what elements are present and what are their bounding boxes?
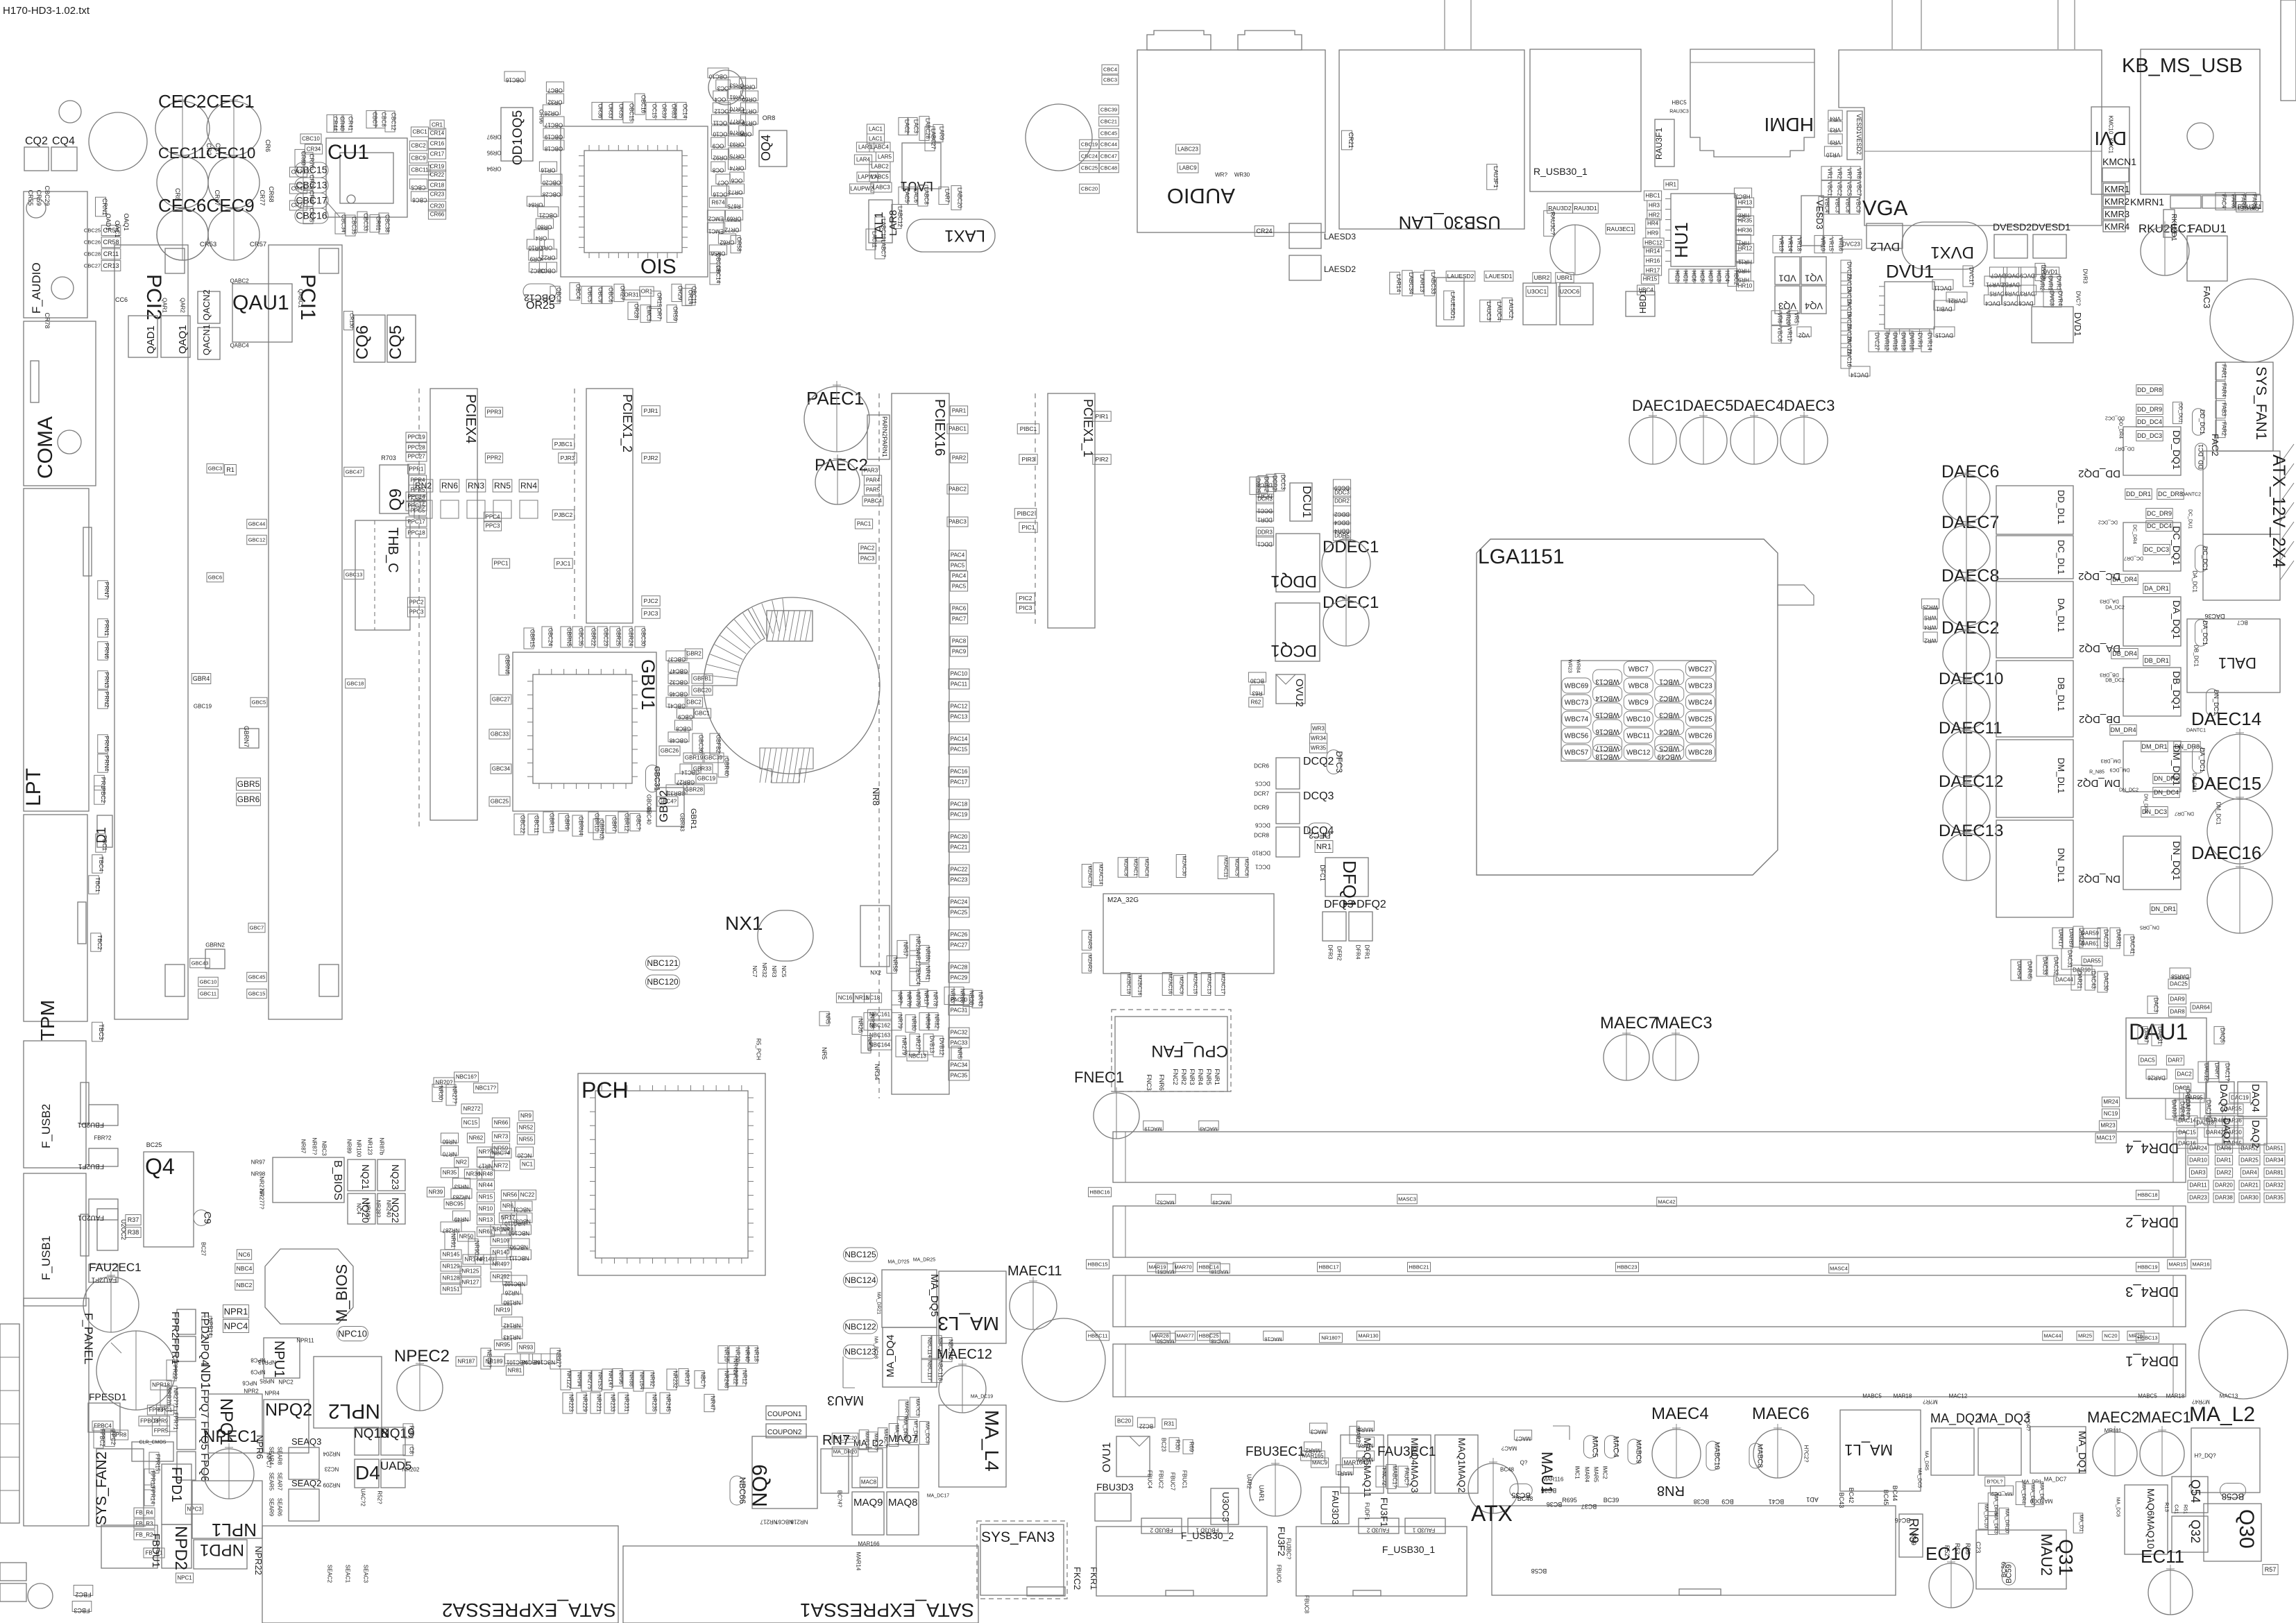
svg-text:NR?7: NR?7 xyxy=(479,1149,493,1155)
svg-text:NR44: NR44 xyxy=(479,1182,493,1189)
svg-text:LABC20: LABC20 xyxy=(957,187,963,208)
transistor NQ23 xyxy=(377,1159,405,1191)
svg-text:DAC31: DAC31 xyxy=(2067,950,2073,968)
svg-text:PAC4: PAC4 xyxy=(952,573,967,579)
connector SYS_FAN1 xyxy=(2216,362,2273,451)
svg-text:CBC25: CBC25 xyxy=(84,227,101,233)
svg-text:CBC10: CBC10 xyxy=(302,136,320,142)
resistor RN5 xyxy=(493,479,512,492)
svg-text:NR245: NR245 xyxy=(665,1395,672,1412)
svg-text:LAR14: LAR14 xyxy=(1395,274,1402,292)
svg-text:PAC5: PAC5 xyxy=(951,563,965,569)
svg-text:CBC48: CBC48 xyxy=(1100,164,1117,171)
svg-text:DC_DQ1: DC_DQ1 xyxy=(2171,526,2182,566)
connector F_USB2 xyxy=(24,1041,86,1168)
svg-text:DB_DR4: DB_DR4 xyxy=(2112,650,2137,657)
svg-text:GBC24: GBC24 xyxy=(547,628,554,647)
svg-text:DDC3: DDC3 xyxy=(1334,490,1350,496)
slot PCIEX16 xyxy=(878,393,880,1098)
svg-text:DAR20: DAR20 xyxy=(2215,1182,2233,1189)
svg-text:GBC2: GBC2 xyxy=(686,699,701,706)
regulator DAQ4 xyxy=(2238,1082,2267,1116)
svg-text:CR61: CR61 xyxy=(375,216,382,231)
svg-text:OR72: OR72 xyxy=(724,227,739,233)
resistor DFC3 xyxy=(1327,750,1341,774)
svg-text:DAQ3: DAQ3 xyxy=(2218,1084,2229,1112)
svg-text:LGA1151: LGA1151 xyxy=(1478,545,1565,568)
svg-text:OC9: OC9 xyxy=(712,143,724,149)
svg-text:WBC14: WBC14 xyxy=(1595,694,1619,702)
svg-text:NR10: NR10 xyxy=(479,1206,493,1212)
transistor OQ4 xyxy=(759,130,787,167)
svg-text:NR87: NR87 xyxy=(300,1139,307,1154)
LAU cluster designators xyxy=(867,124,884,134)
svg-text:R_USB30_1: R_USB30_1 xyxy=(1533,166,1588,177)
resistor RN7 xyxy=(821,1449,849,1493)
svg-text:OR97: OR97 xyxy=(486,134,501,140)
svg-text:NQ23: NQ23 xyxy=(390,1164,401,1190)
connector SATA_EXPRESSA1 xyxy=(623,1546,978,1623)
svg-text:NR27?: NR27? xyxy=(915,1036,921,1053)
svg-text:M2BC18: M2BC18 xyxy=(1125,974,1132,994)
svg-text:F_USB30_2: F_USB30_2 xyxy=(1181,1530,1234,1541)
svg-text:H?C2?: H?C2? xyxy=(1803,1445,1810,1463)
resistor PARN2PARN1 xyxy=(867,415,890,459)
svg-text:DAR51: DAR51 xyxy=(2265,1146,2284,1152)
svg-text:NR81: NR81 xyxy=(508,1368,522,1374)
svg-text:MAC5?: MAC5? xyxy=(873,1433,879,1450)
inductor DC_DL1 xyxy=(1996,536,2073,579)
svg-text:PAC11: PAC11 xyxy=(951,681,968,688)
svg-text:MAC49: MAC49 xyxy=(1212,1199,1230,1205)
svg-text:EMC4: EMC4 xyxy=(915,969,921,985)
svg-text:DAR26: DAR26 xyxy=(2148,1075,2166,1081)
svg-text:GBC6: GBC6 xyxy=(208,574,222,580)
svg-text:M?_DR?: M?_DR? xyxy=(912,1420,919,1441)
diode VESD3 xyxy=(1801,196,1823,246)
svg-text:MA_DC6: MA_DC6 xyxy=(2115,1497,2120,1518)
mounting hole right xyxy=(2199,1310,2288,1399)
svg-text:MA_DR?: MA_DR? xyxy=(2025,1411,2030,1431)
svg-text:PJBC2: PJBC2 xyxy=(554,511,573,518)
svg-text:NBC123: NBC123 xyxy=(844,1347,876,1357)
svg-text:MAR?6: MAR?6 xyxy=(903,1401,910,1418)
regulator DAQ2 xyxy=(2238,1119,2267,1145)
DAR grid right of DDR4_4 xyxy=(2188,1144,2209,1153)
svg-text:DCC1: DCC1 xyxy=(1257,508,1273,514)
svg-text:OR78: OR78 xyxy=(742,120,756,126)
svg-text:FBUC6: FBUC6 xyxy=(1276,1565,1282,1583)
svg-text:NPQ4: NPQ4 xyxy=(198,1336,210,1366)
svg-text:DAR6: DAR6 xyxy=(2216,1146,2231,1152)
svg-text:NR235: NR235 xyxy=(652,1395,658,1412)
svg-text:MA_D?25: MA_D?25 xyxy=(887,1259,909,1264)
svg-text:WR84: WR84 xyxy=(1575,659,1580,673)
svg-text:PPR1: PPR1 xyxy=(409,466,424,473)
svg-text:HU1: HU1 xyxy=(1671,222,1692,258)
connector CQ2 xyxy=(24,147,49,171)
svg-text:LAR7: LAR7 xyxy=(944,189,951,203)
svg-text:FAU3EC1: FAU3EC1 xyxy=(1377,1445,1436,1459)
svg-text:CBC5: CBC5 xyxy=(411,185,426,191)
svg-text:PAC34: PAC34 xyxy=(951,1062,968,1069)
svg-text:PIBC2: PIBC2 xyxy=(1017,510,1035,517)
svg-text:WBC12: WBC12 xyxy=(1626,749,1651,756)
svg-text:NR204: NR204 xyxy=(323,1451,340,1457)
connector SYS_FAN3 xyxy=(977,1521,1067,1599)
svg-text:GBR43: GBR43 xyxy=(679,813,686,832)
resistor MABC9 xyxy=(1628,1439,1640,1464)
svg-text:RN4: RN4 xyxy=(520,481,537,491)
svg-text:PAR2: PAR2 xyxy=(952,455,967,461)
svg-text:OC15: OC15 xyxy=(652,104,658,119)
svg-text:NBC121: NBC121 xyxy=(647,958,679,968)
svg-text:NPR5: NPR5 xyxy=(260,1378,275,1384)
IC OVU2 body xyxy=(1276,674,1305,704)
svg-text:TBC1: TBC1 xyxy=(94,877,101,892)
svg-text:WR30: WR30 xyxy=(1234,172,1250,178)
svg-text:CR19: CR19 xyxy=(430,164,445,170)
svg-text:DAC5: DAC5 xyxy=(2140,1057,2155,1064)
slot DDR4_1 xyxy=(1113,1344,2186,1397)
svg-text:PAC2: PAC2 xyxy=(860,545,875,552)
svg-text:WBC56: WBC56 xyxy=(1565,732,1589,740)
svg-text:PJR2: PJR2 xyxy=(644,454,658,461)
svg-text:DM_DR3: DM_DR3 xyxy=(2101,758,2121,763)
svg-text:MACA9: MACA9 xyxy=(1200,1125,1218,1132)
svg-text:NR78: NR78 xyxy=(933,992,939,1007)
svg-text:GBC19: GBC19 xyxy=(697,776,716,782)
diode DVD1 xyxy=(2032,307,2073,343)
connector AUDIO jack tabs xyxy=(1147,31,1211,50)
svg-text:TBC2: TBC2 xyxy=(96,935,103,950)
svg-text:NR84: NR84 xyxy=(925,1014,931,1029)
svg-text:NR57: NR57 xyxy=(903,942,909,957)
svg-text:MABC8: MABC8 xyxy=(1755,1444,1763,1468)
resistor NPC4 xyxy=(223,1320,248,1333)
svg-text:GBR19: GBR19 xyxy=(685,755,704,761)
svg-text:OBC7: OBC7 xyxy=(547,87,563,94)
svg-text:HC4: HC4 xyxy=(1724,271,1730,282)
svg-text:VR9: VR9 xyxy=(1830,139,1841,146)
svg-text:LAESD3: LAESD3 xyxy=(1324,232,1356,241)
svg-text:PARN2PARN1: PARN2PARN1 xyxy=(881,416,888,457)
svg-text:NR9: NR9 xyxy=(520,1113,532,1119)
svg-text:R5_PCH: R5_PCH xyxy=(756,1038,762,1060)
svg-text:DD_DC1: DD_DC1 xyxy=(2199,409,2206,434)
svg-text:U2OC2: U2OC2 xyxy=(120,1219,127,1240)
svg-text:VR1: VR1 xyxy=(1827,168,1833,179)
svg-text:U3OC1: U3OC1 xyxy=(1527,288,1547,295)
OIS designators right columns xyxy=(708,68,729,78)
capacitor CEC9 xyxy=(208,209,260,260)
svg-text:GBRN2: GBRN2 xyxy=(205,942,225,949)
svg-text:NR8: NR8 xyxy=(871,788,881,806)
svg-text:DM_DR4: DM_DR4 xyxy=(2110,726,2136,733)
svg-text:GBC47: GBC47 xyxy=(669,668,688,674)
svg-text:MASC3: MASC3 xyxy=(1398,1196,1416,1202)
svg-text:M2AC8: M2AC8 xyxy=(1123,858,1129,876)
svg-text:DAR42: DAR42 xyxy=(2206,1130,2224,1136)
svg-text:NR109: NR109 xyxy=(493,1238,510,1244)
svg-text:DD_DC4: DD_DC4 xyxy=(2137,418,2162,425)
IC GBC31 xyxy=(646,765,659,792)
svg-text:HR13: HR13 xyxy=(1738,200,1753,206)
svg-text:PPC19: PPC19 xyxy=(407,434,425,441)
svg-text:HR35: HR35 xyxy=(1738,218,1753,224)
svg-text:MA?C3: MA?C3 xyxy=(915,1398,921,1416)
svg-text:NR129: NR129 xyxy=(443,1264,460,1270)
svg-text:DM_DR1: DM_DR1 xyxy=(2141,743,2167,750)
DC_DR designator cluster xyxy=(2125,489,2152,500)
svg-text:EMC1: EMC1 xyxy=(708,228,724,235)
svg-text:CR53: CR53 xyxy=(200,241,216,248)
regulator DFQ1 xyxy=(1325,858,1368,897)
svg-text:DAEC5: DAEC5 xyxy=(1683,397,1733,414)
svg-text:M2AC5: M2AC5 xyxy=(1234,858,1240,876)
connector SATA_EXPRESSA2 xyxy=(262,1526,618,1623)
svg-text:DAC30: DAC30 xyxy=(2103,973,2109,991)
IC OVU1 xyxy=(1116,1436,1150,1477)
resistor RKU2F1 xyxy=(2236,202,2263,212)
svg-text:NR27?1: NR27?1 xyxy=(173,1388,179,1409)
svg-text:DAR38: DAR38 xyxy=(2215,1195,2233,1201)
svg-text:FBU2F1: FBU2F1 xyxy=(78,1162,104,1170)
svg-text:NR47: NR47 xyxy=(710,1396,716,1411)
svg-text:NBC90: NBC90 xyxy=(510,1244,528,1250)
svg-text:MA_DR7: MA_DR7 xyxy=(2030,1485,2036,1506)
svg-text:PAC16: PAC16 xyxy=(951,769,968,775)
regulator DCQ1 xyxy=(1275,603,1320,661)
svg-text:MAC5: MAC5 xyxy=(1591,1436,1599,1458)
resistor BC48 BC35 xyxy=(1510,1484,1532,1497)
svg-text:NBC111: NBC111 xyxy=(509,1255,529,1261)
svg-text:WBC28: WBC28 xyxy=(1688,749,1712,756)
svg-text:FNC3: FNC3 xyxy=(1146,1074,1153,1091)
svg-text:MAR16: MAR16 xyxy=(2192,1261,2209,1267)
svg-text:HBBC17: HBBC17 xyxy=(1318,1264,1338,1270)
svg-text:HR12: HR12 xyxy=(1738,246,1753,252)
svg-text:HBBC18: HBBC18 xyxy=(2137,1191,2157,1198)
svg-text:PJC2: PJC2 xyxy=(644,597,658,604)
svg-text:Q?: Q? xyxy=(1520,1460,1528,1466)
connector ATX xyxy=(1492,1506,1896,1595)
svg-text:HR4: HR4 xyxy=(1647,221,1659,227)
svg-text:DB_DQ1: DB_DQ1 xyxy=(2171,671,2182,710)
resistor WR25 WR5 WR4 WR2 column xyxy=(1921,599,1939,609)
svg-text:BC48: BC48 xyxy=(1500,1467,1515,1473)
svg-text:OC8: OC8 xyxy=(712,167,724,173)
svg-text:NBC6?: NBC6? xyxy=(775,1519,793,1525)
svg-text:DM_DL1: DM_DL1 xyxy=(2056,758,2066,793)
svg-text:NR218: NR218 xyxy=(790,1519,808,1525)
svg-text:DA_DL1: DA_DL1 xyxy=(2056,598,2066,632)
svg-text:PAC1: PAC1 xyxy=(857,521,871,527)
IC LAUESD1 box xyxy=(1436,278,1464,326)
resistor DFC2 xyxy=(1308,823,1332,837)
svg-text:MA_DC10: MA_DC10 xyxy=(1983,1504,1989,1529)
svg-text:HR36: HR36 xyxy=(1738,228,1753,234)
svg-text:WBC13: WBC13 xyxy=(1595,677,1619,685)
svg-text:GBC47: GBC47 xyxy=(346,468,363,475)
crystal NX2 xyxy=(860,906,890,967)
svg-text:COUPON1: COUPON1 xyxy=(767,1411,802,1418)
svg-text:MR26: MR26 xyxy=(2129,1332,2143,1339)
svg-text:MAR7: MAR7 xyxy=(1355,1427,1361,1443)
svg-text:FPR1: FPR1 xyxy=(169,1338,181,1364)
svg-text:LAR8: LAR8 xyxy=(887,210,899,236)
svg-text:LPT: LPT xyxy=(22,768,45,806)
svg-text:DVU1: DVU1 xyxy=(1886,261,1934,282)
svg-text:UAR2: UAR2 xyxy=(1246,1474,1252,1489)
svg-text:R63: R63 xyxy=(1252,690,1262,697)
svg-text:NR189: NR189 xyxy=(486,1359,503,1365)
svg-text:NPR70: NPR70 xyxy=(166,1387,172,1405)
svg-text:PPR2: PPR2 xyxy=(487,455,502,461)
svg-text:R13: R13 xyxy=(2163,1502,2170,1512)
svg-text:MAC8: MAC8 xyxy=(861,1479,877,1486)
svg-text:MAR18: MAR18 xyxy=(1894,1393,1912,1400)
svg-text:NBC16?: NBC16? xyxy=(456,1074,477,1080)
svg-text:NR180: NR180 xyxy=(503,1300,520,1306)
svg-text:NC23: NC23 xyxy=(324,1466,339,1472)
svg-text:BC59: BC59 xyxy=(2005,1564,2014,1583)
svg-text:FNR3: FNR3 xyxy=(1189,1069,1196,1085)
svg-text:NBC161: NBC161 xyxy=(869,1012,891,1018)
svg-text:GBR22: GBR22 xyxy=(590,628,597,647)
transistor MAQ1 MAQ2 xyxy=(1435,1435,1478,1493)
svg-text:DVX1: DVX1 xyxy=(1930,243,1974,262)
svg-text:LAC1: LAC1 xyxy=(869,126,883,133)
FP designator cluster xyxy=(202,1316,212,1337)
connector SYS_FAN2 xyxy=(96,1449,144,1527)
inductor DD_DL1 top xyxy=(1996,486,2073,534)
svg-text:MA_DC9: MA_DC9 xyxy=(924,1422,930,1443)
svg-text:FNC2: FNC2 xyxy=(1172,1069,1179,1085)
svg-text:NR217: NR217 xyxy=(760,1519,777,1525)
svg-text:GBC3: GBC3 xyxy=(208,465,222,471)
svg-text:MR25: MR25 xyxy=(2078,1332,2092,1339)
svg-text:MAC1?: MAC1? xyxy=(2097,1135,2116,1141)
regulator DN_DQ1 xyxy=(2123,836,2181,890)
svg-text:DD_DQ2: DD_DQ2 xyxy=(2078,468,2120,479)
svg-text:M2AC1: M2AC1 xyxy=(1132,858,1139,876)
svg-text:LAR9: LAR9 xyxy=(939,126,945,141)
svg-text:MA_D1: MA_D1 xyxy=(2078,1514,2084,1531)
svg-text:OR74: OR74 xyxy=(729,165,744,171)
svg-text:GBC23: GBC23 xyxy=(603,628,609,647)
transistor NQ20 xyxy=(348,1193,375,1224)
svg-text:PAC13: PAC13 xyxy=(951,714,968,720)
svg-text:PPR4: PPR4 xyxy=(411,477,425,484)
svg-text:BC22: BC22 xyxy=(1139,1423,1153,1429)
svg-text:DD_DC1: DD_DC1 xyxy=(2197,444,2204,469)
svg-text:MAU1: MAU1 xyxy=(1538,1452,1556,1494)
svg-text:GBC33: GBC33 xyxy=(491,731,509,738)
svg-text:DVBI1: DVBI1 xyxy=(1936,306,1953,312)
svg-text:FU3F2: FU3F2 xyxy=(1276,1527,1287,1556)
svg-text:FBDU1: FBDU1 xyxy=(150,1533,162,1567)
svg-text:GBR9: GBR9 xyxy=(564,815,570,830)
svg-text:DVR14: DVR14 xyxy=(1927,332,1933,350)
svg-text:WBC4: WBC4 xyxy=(1659,727,1679,735)
svg-text:DN_DR4: DN_DR4 xyxy=(2143,794,2148,813)
transistor QACN2 xyxy=(198,291,220,323)
svg-text:CEC2CEC1: CEC2CEC1 xyxy=(158,91,255,112)
svg-text:NPR14: NPR14 xyxy=(207,1318,214,1336)
svg-text:C8: C8 xyxy=(409,1447,415,1454)
svg-text:PCIEX16: PCIEX16 xyxy=(932,399,947,456)
svg-text:MAEC2: MAEC2 xyxy=(2087,1409,2140,1426)
svg-text:OBC14: OBC14 xyxy=(715,265,722,284)
svg-text:NR49: NR49 xyxy=(454,1216,468,1223)
transistor SEAQ3 xyxy=(289,1447,319,1479)
svg-text:LAUC3: LAUC3 xyxy=(1486,301,1493,321)
svg-text:WBC26: WBC26 xyxy=(1688,732,1712,740)
svg-text:FPBC2: FPBC2 xyxy=(99,1429,105,1447)
svg-text:NR95: NR95 xyxy=(496,1342,511,1348)
transistor MAQ7 xyxy=(887,1445,919,1488)
svg-text:SATA_EXPRESSA2: SATA_EXPRESSA2 xyxy=(442,1599,616,1621)
svg-text:DN_DC4: DN_DC4 xyxy=(2154,789,2179,796)
capacitor CBC13 xyxy=(295,178,328,193)
svg-text:LABC4: LABC4 xyxy=(871,144,889,151)
svg-text:SEAR4: SEAR4 xyxy=(269,1447,275,1465)
svg-text:NR58: NR58 xyxy=(892,958,899,972)
svg-text:VR5: VR5 xyxy=(1794,312,1800,323)
svg-text:DAC41: DAC41 xyxy=(2129,936,2136,954)
regulator DAQ1 xyxy=(2208,1116,2234,1145)
svg-text:PAC10: PAC10 xyxy=(951,671,968,677)
svg-text:WBC23: WBC23 xyxy=(1688,682,1712,690)
svg-text:CR68: CR68 xyxy=(268,186,275,202)
svg-text:DVB12: DVB12 xyxy=(939,1037,945,1055)
svg-text:OR75: OR75 xyxy=(729,153,744,160)
svg-text:MAR15: MAR15 xyxy=(2168,1261,2186,1267)
svg-text:KMR3: KMR3 xyxy=(2104,209,2129,219)
svg-text:DAR31: DAR31 xyxy=(2157,1026,2163,1044)
svg-text:GBC37: GBC37 xyxy=(667,656,686,663)
svg-text:NBC32: NBC32 xyxy=(513,1218,531,1225)
svg-text:NBC162: NBC162 xyxy=(869,1023,891,1029)
svg-text:R30: R30 xyxy=(1175,1440,1181,1450)
svg-text:Q30: Q30 xyxy=(2235,1509,2258,1549)
svg-text:M2AC6: M2AC6 xyxy=(1243,858,1250,876)
svg-text:LAUESD1: LAUESD1 xyxy=(1449,292,1456,319)
svg-text:VR4: VR4 xyxy=(1830,116,1841,122)
svg-text:VR8: VR8 xyxy=(1856,168,1862,179)
svg-text:NPR13: NPR13 xyxy=(258,1359,276,1366)
svg-text:SYS_FAN3: SYS_FAN3 xyxy=(981,1529,1055,1545)
svg-text:MABC5: MABC5 xyxy=(2138,1393,2157,1400)
svg-text:VR13: VR13 xyxy=(1778,237,1785,252)
svg-text:DAC44: DAC44 xyxy=(2055,977,2073,983)
svg-text:OR9: OR9 xyxy=(529,256,541,262)
svg-text:DB_DR3: DB_DR3 xyxy=(2100,672,2119,677)
svg-text:NPR2: NPR2 xyxy=(244,1388,259,1395)
svg-text:MA_DQ1: MA_DQ1 xyxy=(2076,1431,2088,1474)
svg-text:BC30: BC30 xyxy=(1250,678,1264,684)
svg-text:DVC27: DVC27 xyxy=(1874,332,1880,350)
svg-text:DAC43: DAC43 xyxy=(2091,971,2097,989)
svg-text:DN_DQ2: DN_DQ2 xyxy=(2078,873,2120,885)
svg-text:PAC3: PAC3 xyxy=(860,556,875,562)
svg-text:GBC20: GBC20 xyxy=(693,688,712,694)
VD1 VQ1 labels xyxy=(1775,257,1800,284)
svg-text:PAC32: PAC32 xyxy=(951,1030,968,1036)
svg-text:NR80: NR80 xyxy=(911,1017,917,1031)
connector F_AUDIO xyxy=(24,192,87,318)
